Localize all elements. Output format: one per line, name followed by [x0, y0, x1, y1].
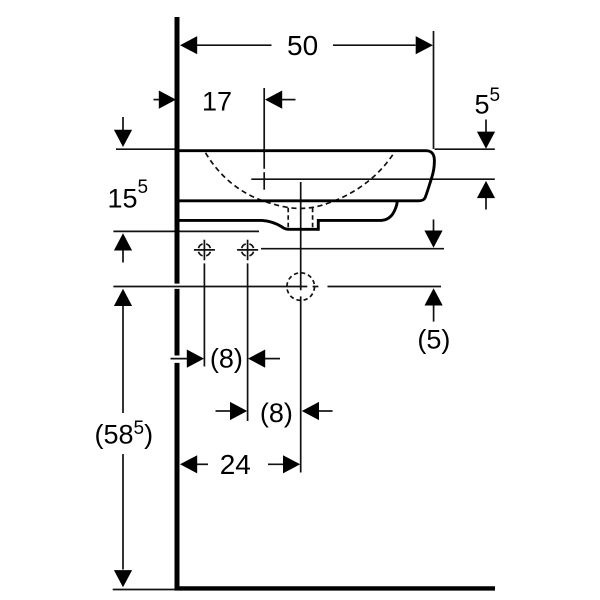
svg-text:(585): (585) [95, 418, 154, 450]
svg-text:50: 50 [287, 30, 318, 61]
svg-text:24: 24 [220, 449, 251, 480]
svg-text:(5): (5) [417, 325, 450, 355]
svg-text:(8): (8) [260, 398, 293, 428]
svg-text:(8): (8) [210, 344, 243, 374]
svg-text:17: 17 [202, 86, 232, 116]
